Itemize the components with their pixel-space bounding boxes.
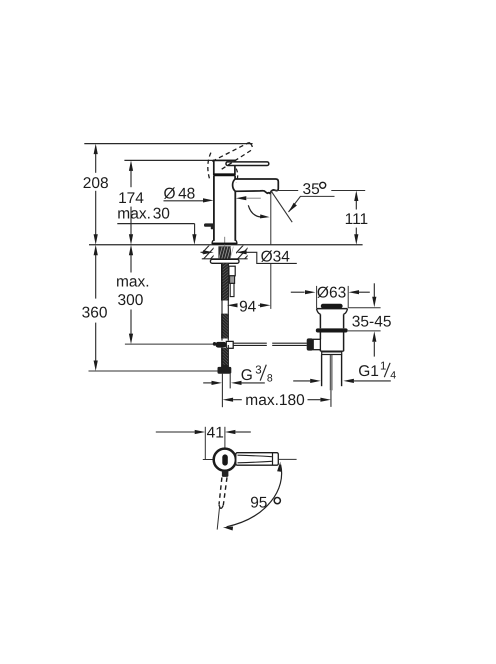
svg-text:G: G — [241, 367, 253, 384]
svg-text:Ø34: Ø34 — [261, 248, 291, 265]
svg-text:94: 94 — [239, 299, 257, 316]
svg-text:300: 300 — [117, 292, 143, 309]
svg-text:111: 111 — [345, 211, 369, 228]
svg-text:Ø48: Ø48 — [164, 186, 196, 203]
svg-text:8: 8 — [267, 373, 273, 385]
svg-text:35: 35 — [303, 181, 320, 198]
svg-text:35-45: 35-45 — [352, 313, 392, 330]
svg-text:Ø63: Ø63 — [317, 285, 346, 302]
svg-text:41: 41 — [207, 425, 224, 442]
svg-text:4: 4 — [390, 369, 396, 381]
svg-text:174: 174 — [118, 190, 144, 207]
svg-text:max.: max. — [116, 274, 150, 291]
svg-text:1: 1 — [380, 361, 386, 373]
svg-text:max.180: max.180 — [245, 392, 305, 409]
svg-text:max.30: max.30 — [117, 206, 170, 223]
svg-text:208: 208 — [83, 175, 109, 192]
svg-text:G1: G1 — [358, 363, 379, 380]
svg-text:95: 95 — [250, 495, 267, 512]
svg-text:360: 360 — [82, 304, 108, 321]
svg-text:3: 3 — [255, 364, 261, 376]
